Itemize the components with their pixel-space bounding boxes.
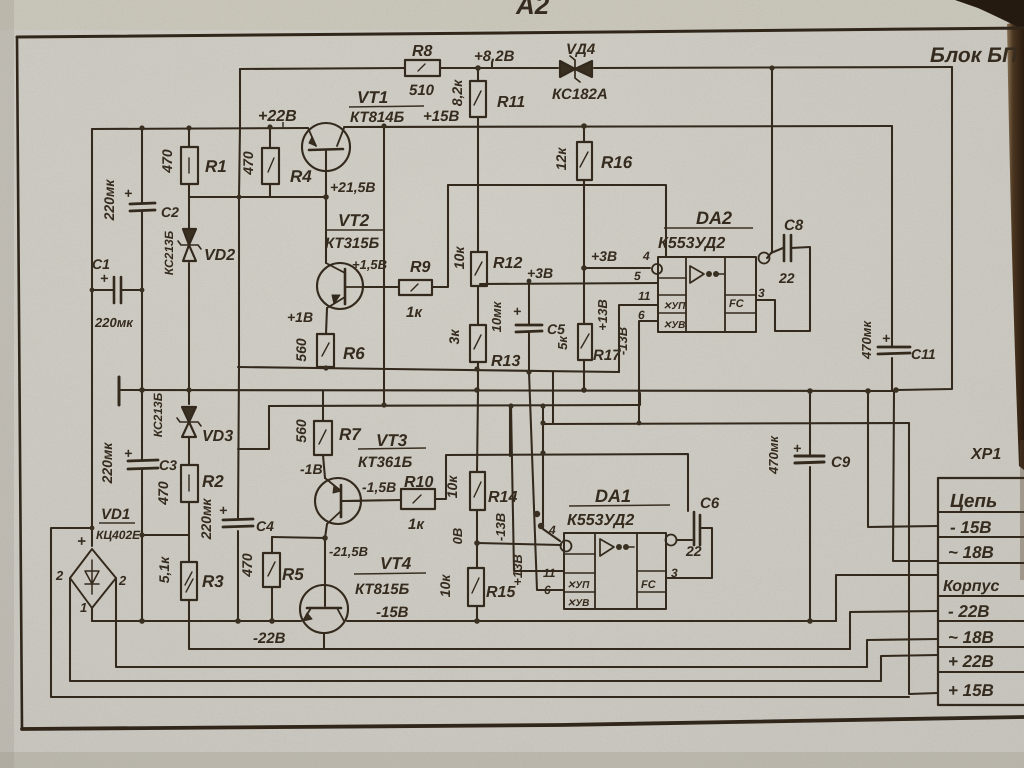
svg-text:11: 11 [543,566,556,580]
svg-text:КС182А: КС182А [552,86,608,103]
wire ~18V row1 feed [893,391,938,561]
svg-text:-13В: -13В [493,513,508,541]
op-amp DA2 output circle [759,253,770,264]
svg-text:22: 22 [778,270,795,286]
svg-text:VD1: VD1 [101,506,130,523]
resistor R13 [470,325,486,362]
wire C8 loop to pin3 [757,247,810,331]
svg-text:VD2: VD2 [204,247,235,264]
wire rail C [269,393,640,406]
svg-text:22: 22 [685,543,702,559]
svg-text:+ 22В: + 22В [948,652,994,671]
wire pin4 net +3V [584,267,650,269]
svg-text:С3: С3 [159,457,177,473]
wire VT2 base to R9 [363,286,399,288]
wire rail L4 from bridge left [70,578,881,681]
svg-text:~ 18В: ~ 18В [948,543,994,562]
svg-text:✕УП: ✕УП [663,301,686,312]
wire x510 branch to rail C [509,406,511,456]
wire rail B common [121,390,896,391]
op-amp DA2 pin4 input circle [652,264,662,274]
wire top net through R8 and VD4 [240,67,952,69]
junction dots [186,125,191,130]
svg-text:R2: R2 [202,472,224,491]
connector XP1 table [938,478,1024,705]
svg-text:R8: R8 [412,43,433,60]
svg-text:R14: R14 [488,489,517,506]
svg-text:-21,5В: -21,5В [329,544,368,559]
svg-text:Корпус: Корпус [943,578,999,595]
op-amp DA2 triangle symbol [690,266,704,283]
svg-text:К553УД2: К553УД2 [658,235,725,252]
wire R6 bottom to rail A [325,367,327,368]
resistor R16 [577,142,592,180]
capacitor C6 [694,512,700,545]
capacitor C3 [128,460,158,469]
wire pin5 net from R12 bottom [480,283,658,284]
wire rail L5 from bridge plus node [51,528,909,697]
svg-text:R10: R10 [404,474,433,491]
svg-text:10мк: 10мк [489,300,504,332]
wire R9 riser to y185 net [432,185,448,287]
svg-text:КТ814Б: КТ814Б [350,109,405,126]
svg-text:-13В: -13В [615,327,630,355]
svg-text:470мк: 470мк [859,320,874,360]
op-amp DA1 box [564,533,666,609]
outer frame border left [17,37,22,729]
svg-text:1к: 1к [408,516,425,533]
svg-text:220мк: 220мк [101,179,117,222]
wire x142 column C2 C3 [141,129,143,621]
wire -15V row feed [868,391,938,527]
svg-text:- 22В: - 22В [948,602,990,621]
svg-text:ХР1: ХР1 [970,446,1001,463]
svg-text:+1В: +1В [287,309,313,325]
svg-text:470: 470 [239,553,255,578]
svg-text:560: 560 [293,419,309,443]
svg-text:~ 18В: ~ 18В [948,628,994,647]
resistor R9 [399,280,432,295]
outer frame border bottom [22,717,1024,729]
svg-text:-15В: -15В [376,604,409,621]
resistor R14 [470,472,485,510]
capacitor C11 [878,347,910,354]
svg-text:КС213Б: КС213Б [162,230,176,275]
svg-text:КЦ402Е: КЦ402Е [96,528,141,542]
wire rail L3 ~18V from bridge right [116,578,867,667]
wire DA1 output to C6 [677,539,692,541]
svg-text:6: 6 [638,308,645,322]
svg-text:✕УП: ✕УП [567,580,590,591]
resistor R4 [262,148,279,184]
svg-text:5,1к: 5,1к [156,556,172,583]
svg-text:+22В: +22В [258,108,297,125]
svg-text:+13В: +13В [595,299,610,330]
svg-text:470: 470 [240,151,256,176]
wire 0V divider to DA1 pin4 [477,543,561,545]
wire DA2 pin11 feed from rail A [619,305,658,372]
resistor R7 [314,421,332,455]
svg-text:4: 4 [548,523,556,537]
resistor R11 [470,81,486,117]
transistor VT4 [300,585,348,633]
wire y185 net to DA2 top [448,185,666,257]
svg-text:VD3: VD3 [202,428,233,445]
resistor R3 [181,562,197,600]
wire x909 down to +15V row [909,423,938,694]
wire R16 column down to pin4 node [583,126,585,268]
wire VT4 emitter stub to L2 [323,633,325,649]
svg-text:А2: А2 [515,0,550,20]
wire -22V row feed [850,611,938,649]
svg-text:VT1: VT1 [357,88,388,107]
svg-text:R13: R13 [491,353,520,370]
svg-text:+: + [77,533,86,550]
svg-text:3: 3 [758,286,765,300]
svg-text:2: 2 [55,568,64,583]
resistor R2 [181,465,198,502]
wire +15V output to table x909 [543,423,909,424]
zener diode VD2 [183,229,196,245]
svg-text:10к: 10к [444,475,460,499]
op-amp DA1 triangle symbol [600,539,614,556]
op-amp DA1 pin4 input circle [561,541,572,552]
wire right vertical from top net down [897,67,952,390]
svg-text:R5: R5 [282,565,304,584]
svg-text:2: 2 [118,573,127,588]
svg-text:220мк: 220мк [94,315,134,330]
svg-text:Цепь: Цепь [950,491,997,512]
MAIN SCHEMATIC [51,62,952,697]
svg-text:12к: 12к [553,147,569,171]
svg-text:КС213Б: КС213Б [151,392,165,437]
svg-text:R16: R16 [601,153,633,172]
svg-text:3: 3 [671,566,678,580]
svg-text:4: 4 [642,249,650,263]
svg-text:FC: FC [729,298,745,310]
svg-text:КТ315Б: КТ315Б [325,235,380,252]
wire VT3 base to R10 [342,500,401,501]
transistor VT2 [317,263,363,309]
svg-text:С8: С8 [784,217,804,234]
svg-text:+: + [100,270,108,286]
zener diode VD4 [560,61,575,77]
svg-text:КТ815Б: КТ815Б [355,581,410,598]
wire R1 column [188,129,190,197]
op-amp DA2 box [658,257,756,332]
wire C6 to pin3 loop [667,528,712,578]
svg-text:DA2: DA2 [696,208,732,228]
svg-text:R3: R3 [202,572,224,591]
wire VT2 collector riser [325,198,327,263]
svg-text:- 15В: - 15В [950,518,992,537]
svg-text:8,2к: 8,2к [449,79,465,106]
wire VD3 R2 R3 column [188,391,190,562]
svg-text:+21,5В: +21,5В [330,179,376,195]
capacitor C5 [516,325,542,332]
wire R5 top to VT4 base node [272,537,325,538]
capacitor C2 [130,203,155,211]
svg-text:+1,5В: +1,5В [352,257,387,272]
svg-text:+: + [882,330,890,346]
svg-text:3к: 3к [446,329,462,345]
svg-text:220мк: 220мк [99,442,115,485]
svg-text:VД4: VД4 [566,41,596,58]
op-amp DA1 output circle [666,535,677,546]
bridge rectifier VD1 [70,549,116,608]
resistor R5 [263,553,280,587]
resistor R8 [405,60,440,76]
wire VT3 collector to VT4 base node [325,524,327,538]
transistor VT3 [315,478,361,524]
svg-text:VT3: VT3 [376,431,408,450]
wire VT4 base riser [324,538,326,606]
svg-text:С6: С6 [700,495,720,512]
wire column x238 from top net to rail L1 [238,69,240,621]
svg-text:+3В: +3В [527,265,553,281]
wire DA1 pin11 feed [511,406,564,571]
svg-text:1к: 1к [406,304,423,321]
wire R4 column [269,127,271,197]
wire +15V long vertical x384 [383,126,385,405]
capacitor C9 [795,456,824,463]
wire VD2 column [188,197,190,391]
wire R10 riser feedback net to C6 [435,454,688,511]
ground chassis terminal bar at rail B left end [118,377,121,405]
wire VT2 emitter to R6 [326,308,327,334]
wire x543 vertical rail C to DA1 pin4 [543,406,560,541]
wire rail A stub to +15V wire [552,372,554,423]
capacitor C8 [784,235,791,261]
wire rail A [238,367,619,372]
svg-text:С4: С4 [256,518,274,534]
wire DA1 pin6 feed [529,372,564,590]
svg-text:R12: R12 [493,255,522,272]
svg-text:5: 5 [634,269,641,283]
svg-text:560: 560 [293,338,309,362]
svg-text:+: + [124,445,132,461]
svg-text:R9: R9 [410,259,431,276]
zener diode VD3 [182,407,196,422]
svg-text:-22В: -22В [253,630,286,647]
svg-text:R1: R1 [205,157,227,176]
svg-text:+13В: +13В [510,554,525,585]
svg-text:+15В: +15В [423,108,459,125]
svg-text:Блок БП: Блок БП [930,44,1018,67]
svg-text:6: 6 [544,583,551,597]
svg-text:✕УВ: ✕УВ [567,598,589,609]
svg-text:С5: С5 [547,321,565,337]
wire VT1 base riser [325,151,327,197]
svg-text:КТ361Б: КТ361Б [358,454,413,471]
svg-text:R6: R6 [343,344,365,363]
wire R17 column [583,268,585,391]
svg-text:510: 510 [409,82,435,99]
wire C1 row [92,289,142,291]
svg-text:-1В: -1В [300,461,323,477]
svg-text:-1,5В: -1,5В [362,479,396,495]
svg-text:470: 470 [155,481,171,506]
wire rail C left jog to C4 column [238,406,269,449]
svg-text:R7: R7 [339,425,362,444]
wire +22V row feed [881,655,938,681]
svg-text:+ 15В: + 15В [948,681,994,700]
svg-text:С11: С11 [911,346,936,362]
wire C5 riser [528,284,530,372]
transistor VT1 [302,123,350,171]
svg-text:DA1: DA1 [595,486,631,506]
wire DA2 output riser [767,68,772,258]
resistor R6 [317,334,334,367]
wire +22V rail left segment [92,128,308,129]
outer frame border top [17,28,1024,37]
wire rail L2 -22V [189,600,850,649]
svg-text:+: + [124,185,132,201]
resistor R12 [471,252,487,286]
svg-text:К553УД2: К553УД2 [567,512,634,529]
svg-text:+: + [219,502,227,518]
wire ~18V row2 feed [867,639,938,667]
svg-text:VT4: VT4 [380,554,412,573]
svg-text:С2: С2 [161,204,179,220]
svg-text:220мк: 220мк [198,498,214,541]
svg-text:VT2: VT2 [338,211,370,230]
wire R5 column [271,537,273,621]
dark blob top-right corner [955,0,1024,30]
svg-text:+: + [513,303,521,319]
svg-text:10к: 10к [437,574,453,598]
svg-text:R4: R4 [290,167,312,186]
wire R2-R3 junction to x142 column [142,534,189,536]
svg-text:1: 1 [80,600,87,615]
svg-text:FC: FC [641,579,657,591]
svg-text:470: 470 [159,149,175,174]
svg-text:470мк: 470мк [766,435,781,475]
svg-text:R11: R11 [497,94,525,111]
svg-text:0В: 0В [450,528,465,545]
resistor R1 [181,147,198,184]
wire +15V rail from VT1 collector to C11 branch [344,126,892,127]
resistor R10 [401,489,435,509]
wire R1 bottom to VT1 base node [189,196,326,198]
wire rail L1 common ground to table [92,620,836,622]
wire +8.2V tick [491,62,493,68]
capacitor C4 [223,519,253,527]
wire C11 branch vertical [891,126,893,391]
wire x92 column bridge plus to +22V [91,129,93,546]
wire R7 top to rail B [322,391,324,421]
svg-text:+8,2В: +8,2В [474,48,515,65]
wire DA2 pin6 feed [639,321,658,423]
wire bridge minus to rail L1 [91,608,93,621]
svg-text:5к: 5к [555,335,570,350]
svg-text:С9: С9 [831,454,851,471]
svg-text:11: 11 [638,289,651,303]
svg-text:✕УВ: ✕УВ [663,320,685,331]
capacitor C1 [114,277,121,303]
resistor R17 [578,324,592,360]
svg-text:10к: 10к [451,246,467,270]
resistor R15 [468,568,484,606]
wire Korpus row feed [836,575,938,621]
wire R7 bottom to VT3 [323,455,325,478]
dark photo edge right band [1007,20,1024,470]
wire R11-R12-R13-R14-R15 column [477,68,478,621]
svg-text:+: + [793,440,801,456]
wire C9 column [809,391,811,621]
svg-text:+3В: +3В [591,248,617,264]
